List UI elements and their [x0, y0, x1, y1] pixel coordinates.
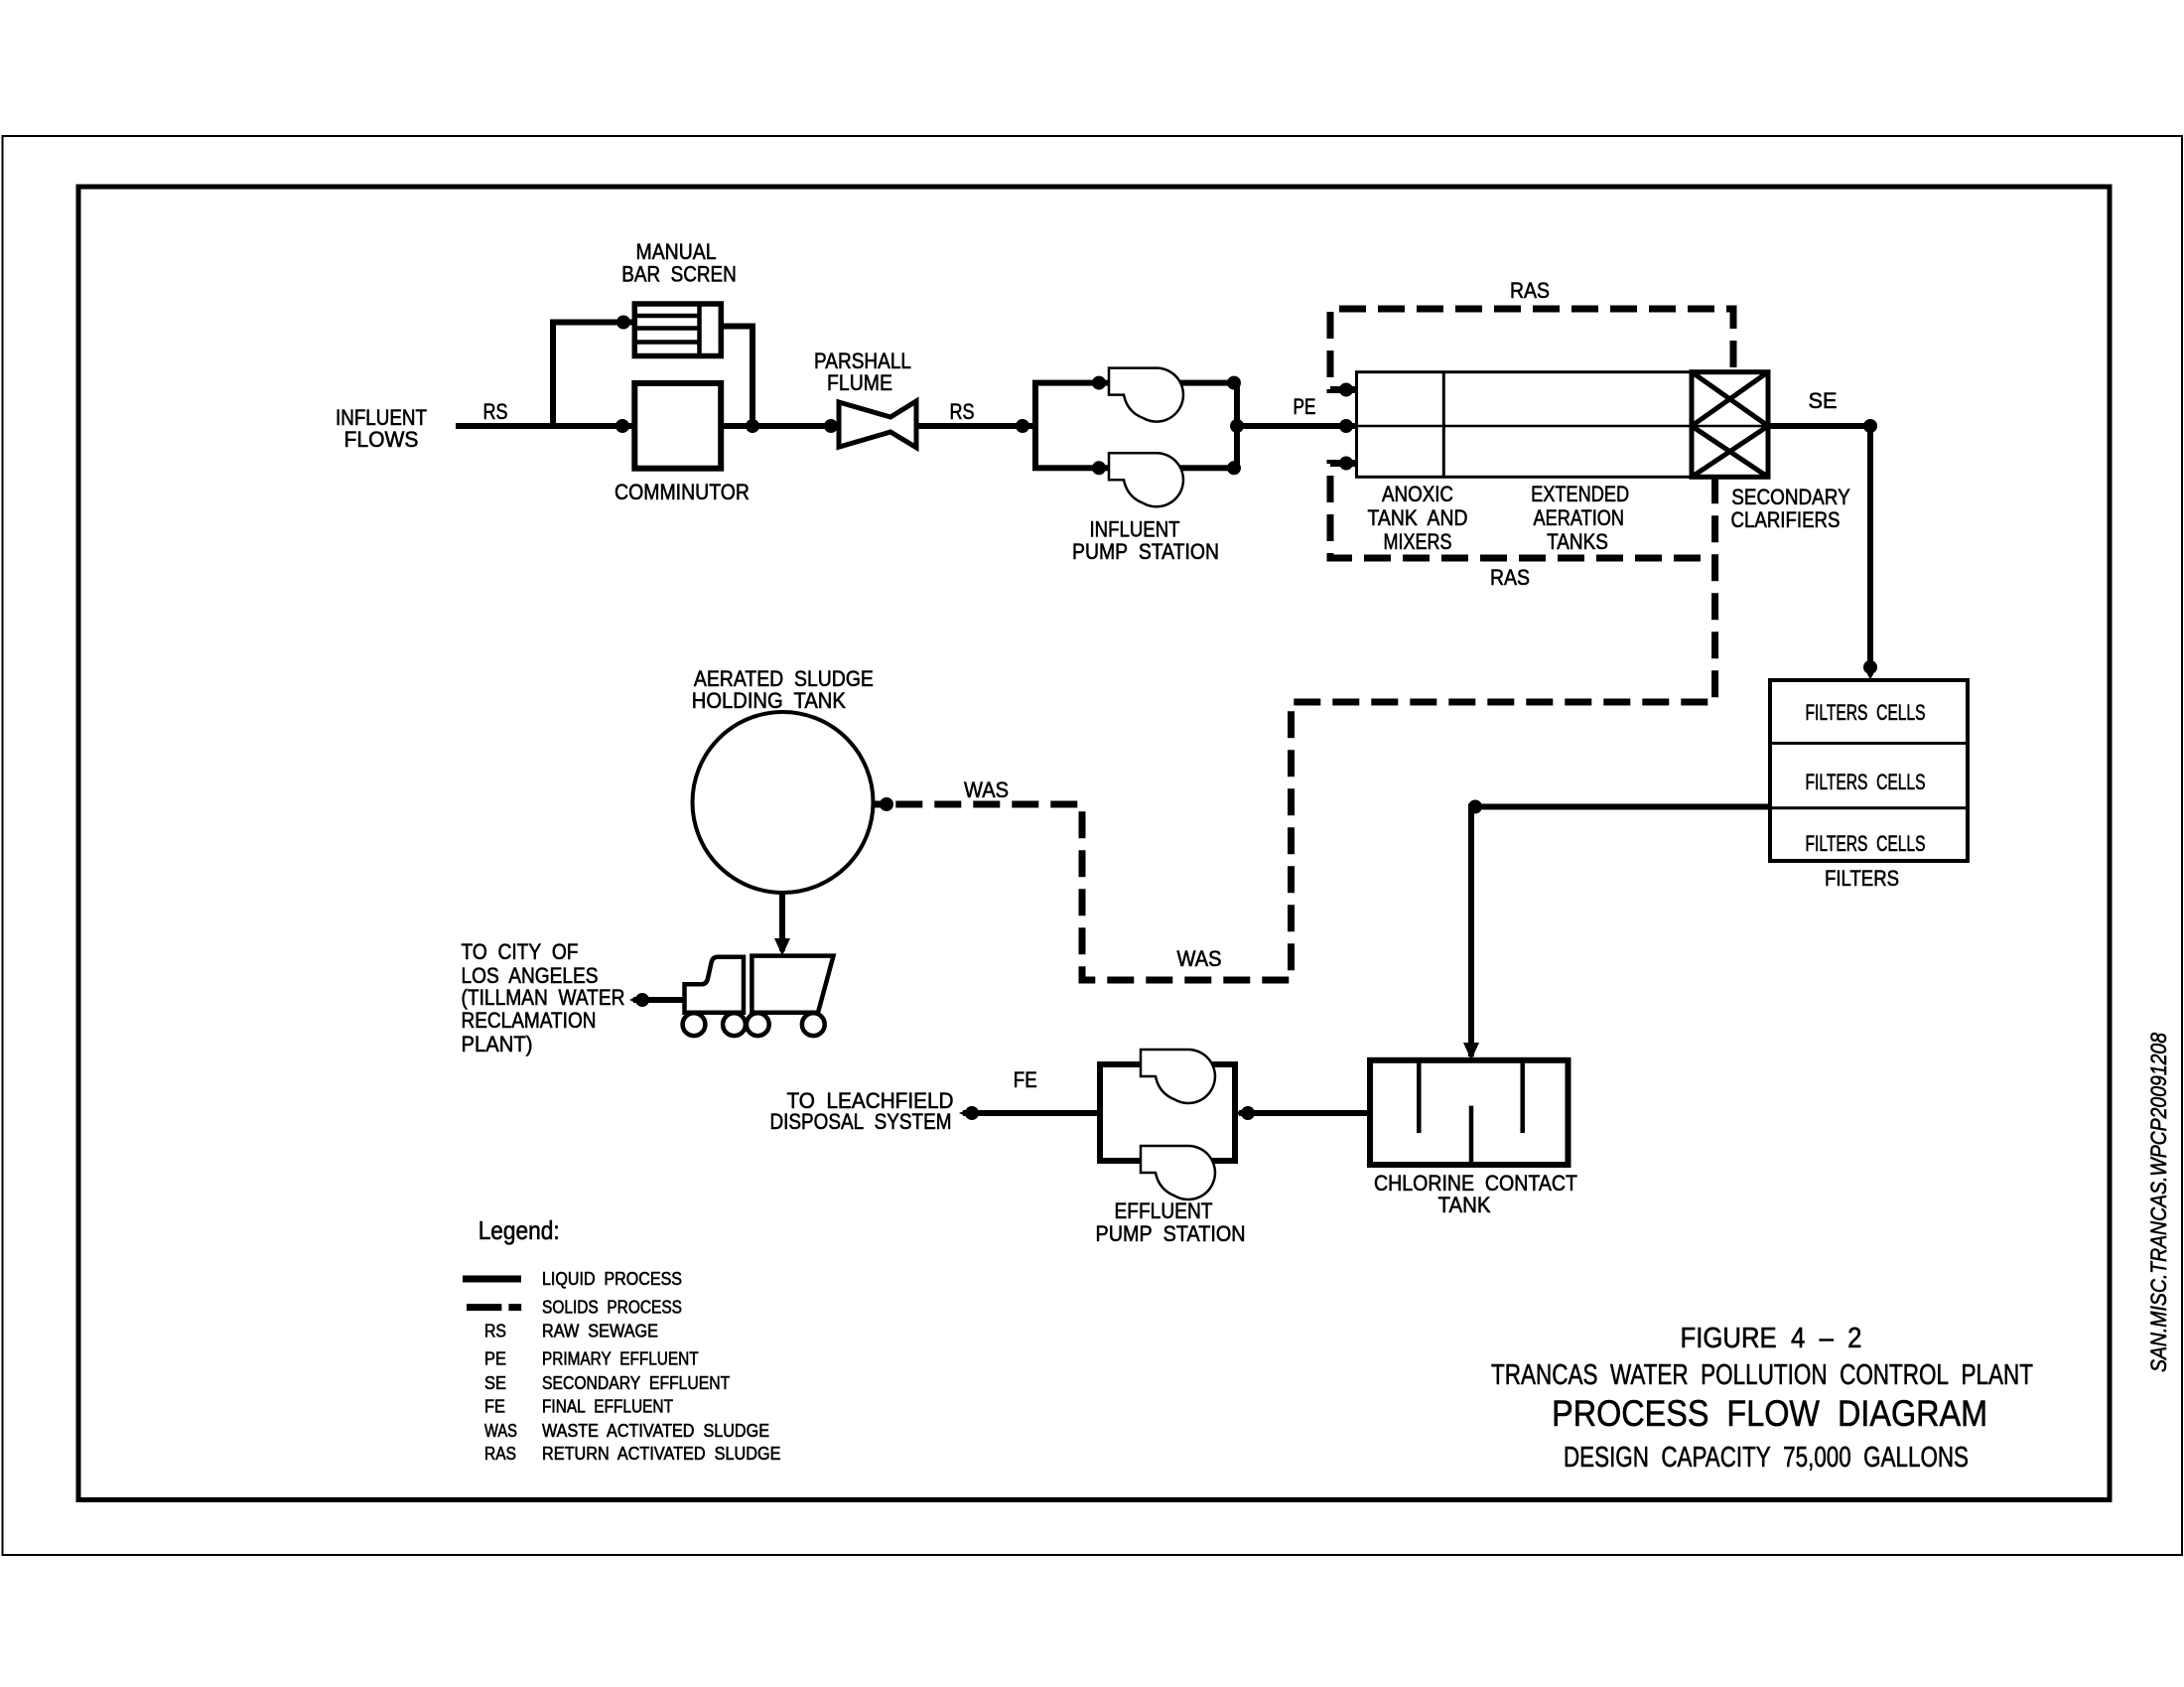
svg-text:SECONDARY EFFLUENT: SECONDARY EFFLUENT	[542, 1373, 730, 1393]
svg-text:INFLUENT: INFLUENT	[1090, 517, 1180, 542]
influent pump station box	[1035, 383, 1237, 469]
arrow into effluent pump station	[1241, 1106, 1255, 1120]
svg-text:WAS: WAS	[1177, 946, 1222, 971]
truck line arrow	[635, 993, 649, 1007]
svg-text:DESIGN CAPACITY 75,000 GALL: DESIGN CAPACITY 75,000 GALLONS	[1564, 1442, 1969, 1474]
dashed RAS top loop	[1330, 309, 1733, 390]
svg-text:PE: PE	[1294, 394, 1316, 419]
svg-text:RS: RS	[484, 1322, 506, 1341]
svg-text:MIXERS: MIXERS	[1384, 529, 1452, 554]
dot PE exit	[1230, 419, 1244, 433]
svg-text:FLUME: FLUME	[827, 370, 892, 395]
arrow into flume	[824, 419, 838, 433]
wire: bypass riser to bar screen	[553, 323, 637, 427]
svg-text:CLARIFIERS: CLARIFIERS	[1731, 507, 1841, 532]
junction after bar screen	[746, 419, 759, 433]
SE corner dot	[1863, 419, 1877, 433]
svg-text:PROCESS FLOW DIAGRAM: PROCESS FLOW DIAGRAM	[1552, 1393, 1987, 1434]
parshall flume	[839, 401, 916, 448]
wire: SE line clarifier to filters	[1768, 426, 1870, 675]
arrow into chlorine tank	[1463, 1043, 1479, 1060]
svg-text:EFFLUENT: EFFLUENT	[1115, 1198, 1213, 1223]
wire: bar screen outlet return	[721, 327, 752, 427]
svg-text:BAR SCREN: BAR SCREN	[621, 262, 737, 287]
baffles	[1419, 1060, 1522, 1165]
svg-text:WAS: WAS	[964, 777, 1009, 802]
svg-text:WASTE ACTIVATED SLUDGE: WASTE ACTIVATED SLUDGE	[542, 1421, 769, 1441]
svg-text:FLOWS: FLOWS	[344, 427, 419, 452]
svg-text:RETURN ACTIVATED SLUDGE: RETURN ACTIVATED SLUDGE	[542, 1444, 781, 1464]
dashed WAS line from clarifier to sludge tank	[874, 477, 1715, 980]
svg-text:FE: FE	[1014, 1067, 1037, 1092]
svg-text:FILTERS: FILTERS	[1825, 866, 1899, 891]
svg-text:EXTENDED: EXTENDED	[1531, 482, 1629, 506]
effluent pump station box	[1100, 1064, 1235, 1161]
arrows into pumps	[1092, 376, 1241, 476]
wire: PE line pump station to aeration tank	[1237, 423, 1358, 429]
svg-text:SECONDARY: SECONDARY	[1731, 485, 1850, 509]
truck wheels	[683, 1013, 825, 1036]
arrow RAS top into tank	[1339, 383, 1353, 397]
anoxic divider	[1442, 372, 1445, 478]
arrow into bar screen	[616, 316, 630, 330]
svg-text:SE: SE	[1809, 388, 1838, 413]
arrow into filters	[1863, 660, 1877, 674]
svg-text:MANUAL: MANUAL	[636, 239, 717, 264]
pump P2	[1109, 453, 1183, 506]
svg-text:HOLDING TANK: HOLDING TANK	[692, 688, 846, 713]
arrow RAS bottom into tank	[1339, 457, 1353, 471]
svg-text:LIQUID PROCESS: LIQUID PROCESS	[542, 1269, 682, 1289]
svg-text:TANK: TANK	[1438, 1193, 1491, 1217]
svg-text:AERATION: AERATION	[1534, 505, 1625, 530]
svg-text:FILTERS CELLS: FILTERS CELLS	[1806, 770, 1926, 794]
svg-text:SE: SE	[484, 1373, 506, 1393]
svg-text:FILTERS CELLS: FILTERS CELLS	[1806, 831, 1926, 856]
wire: FE line out of effluent pump station	[963, 1110, 1099, 1116]
wire: influent main line RS	[456, 423, 637, 429]
svg-text:PUMP STATION: PUMP STATION	[1096, 1221, 1246, 1246]
svg-text:FINAL EFFLUENT: FINAL EFFLUENT	[542, 1397, 673, 1417]
pump P3	[1141, 1050, 1215, 1103]
svg-text:RAS: RAS	[1510, 278, 1550, 303]
pump P4	[1141, 1146, 1215, 1199]
secondary clarifier X box	[1692, 372, 1768, 478]
svg-text:FILTERS CELLS: FILTERS CELLS	[1806, 700, 1926, 725]
wire: flume to influent pump station RS	[915, 423, 1035, 429]
comminutor	[634, 383, 721, 469]
wire: sludge tank to truck	[779, 891, 785, 951]
svg-text:WAS: WAS	[484, 1421, 517, 1441]
svg-text:SOLIDS PROCESS: SOLIDS PROCESS	[542, 1298, 682, 1318]
svg-text:TO CITY OF: TO CITY OF	[462, 939, 579, 964]
filters box	[1770, 680, 1968, 861]
svg-text:TRANCAS WATER POLLUTION CON: TRANCAS WATER POLLUTION CONTROL PLANT	[1491, 1359, 2033, 1391]
svg-text:RAS: RAS	[484, 1444, 516, 1464]
flow arrows and junction dots	[615, 316, 1877, 1121]
truck trailer	[751, 956, 833, 1013]
arrow PE into tank	[1339, 419, 1353, 433]
svg-text:PUMP STATION: PUMP STATION	[1072, 539, 1219, 564]
inner thick border	[78, 187, 2110, 1500]
chlorine contact tank	[1370, 1060, 1569, 1165]
svg-text:RECLAMATION: RECLAMATION	[462, 1008, 597, 1033]
truck cab	[685, 957, 745, 1013]
svg-text:PE: PE	[484, 1349, 506, 1369]
svg-text:RS: RS	[483, 399, 508, 424]
FE arrow	[965, 1106, 979, 1120]
tank mid line	[1357, 425, 1769, 428]
legend liquid process sample	[463, 1276, 521, 1283]
svg-text:RAS: RAS	[1490, 565, 1530, 590]
aerated sludge holding tank circle	[693, 712, 874, 893]
arrow into truck	[774, 938, 790, 956]
svg-text:RS: RS	[950, 399, 975, 424]
svg-text:COMMINUTOR: COMMINUTOR	[614, 480, 750, 504]
arrow into pump station	[1016, 419, 1029, 433]
wire: filters outlet to chlorine contact tank	[1471, 807, 1770, 1057]
svg-text:TANKS: TANKS	[1547, 529, 1608, 554]
manual bar screen	[634, 304, 721, 356]
WAS arrow into sludge tank	[880, 797, 893, 811]
svg-text:PLANT): PLANT)	[462, 1032, 533, 1056]
arrow into comminutor	[615, 419, 629, 433]
svg-text:FE: FE	[484, 1397, 505, 1417]
pump P1	[1109, 368, 1183, 422]
filters outlet corner dot	[1468, 800, 1482, 814]
wire: truck haul-away line	[633, 997, 685, 1003]
aeration tank rectangle	[1357, 372, 1769, 478]
legend solids process sample	[467, 1304, 521, 1311]
svg-text:Legend:: Legend:	[478, 1215, 560, 1245]
svg-text:(TILLMAN WATER: (TILLMAN WATER	[462, 985, 625, 1010]
svg-text:TANK AND: TANK AND	[1368, 505, 1468, 530]
svg-text:ANOXIC: ANOXIC	[1382, 482, 1453, 506]
wire: chlorine tank to effluent pump station	[1239, 1110, 1370, 1116]
svg-text:SAN.MISC.TRANCAS.WPCP20091208: SAN.MISC.TRANCAS.WPCP20091208	[2146, 1032, 2171, 1372]
svg-text:DISPOSAL SYSTEM: DISPOSAL SYSTEM	[770, 1109, 952, 1134]
svg-text:RAW SEWAGE: RAW SEWAGE	[542, 1322, 658, 1341]
wire: comminutor to parshall flume	[721, 423, 839, 429]
svg-text:PRIMARY EFFLUENT: PRIMARY EFFLUENT	[542, 1349, 699, 1369]
svg-text:FIGURE 4 – 2: FIGURE 4 – 2	[1681, 1323, 1862, 1354]
dashed RAS bottom loop	[1330, 464, 1715, 559]
